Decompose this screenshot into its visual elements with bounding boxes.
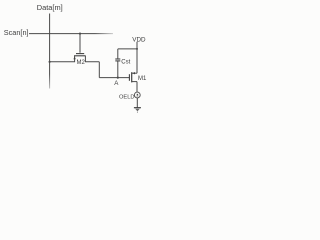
- transistor M1 source stub: [132, 81, 137, 83]
- transistor M2 drain lead: [85, 56, 99, 62]
- capacitor Cst bottom lead: [117, 61, 119, 78]
- svg-text:A: A: [114, 80, 119, 87]
- wire M1 source to OELD: [136, 82, 138, 93]
- wire M2 drain to node A: [98, 62, 100, 78]
- transistor M1 drain stub (to VDD): [132, 72, 137, 74]
- capacitor Cst top lead: [117, 49, 119, 59]
- junction dot scan/gate: [79, 33, 81, 35]
- transistor M2 channel bar: [74, 55, 86, 57]
- transistor M1 gate bar: [128, 74, 130, 81]
- capacitor Cst top plate: [115, 58, 120, 60]
- junction dot data/M2 source: [49, 61, 51, 63]
- ground bar: [134, 107, 141, 109]
- svg-text:Cst: Cst: [121, 59, 130, 65]
- transistor M1 drain arrow: [132, 72, 135, 74]
- transistor M2 gate bar: [76, 53, 84, 55]
- diode OELD circle: [134, 92, 140, 98]
- wire OELD to ground: [136, 98, 138, 108]
- ground tip mark: [137, 112, 138, 113]
- svg-text:M1: M1: [138, 76, 147, 82]
- diode OELD triangle: [136, 94, 138, 96]
- svg-text:Data[m]: Data[m]: [37, 3, 63, 12]
- wire VDD vertical: [136, 42, 138, 73]
- transistor M1 channel bar: [131, 72, 133, 82]
- junction dot node A / Cst: [117, 77, 119, 79]
- diode OELD cathode bar: [136, 95, 138, 97]
- wire Scan[n] horizontal line: [29, 33, 95, 35]
- svg-text:VDD: VDD: [132, 36, 146, 43]
- wire node A horizontal: [99, 77, 129, 79]
- svg-text:OELD: OELD: [119, 94, 135, 100]
- ground triangle: [135, 109, 140, 112]
- transistor M2 source arrow: [73, 57, 75, 60]
- junction dot VDD/Cst: [136, 48, 138, 50]
- svg-text:Scan[n]: Scan[n]: [4, 28, 29, 37]
- wire M2 gate stub: [79, 34, 81, 53]
- wire Cst to VDD rail: [118, 48, 137, 50]
- transistor M2 source lead: [50, 56, 75, 62]
- wire Data[m] vertical line: [49, 14, 51, 75]
- svg-text:M2: M2: [77, 60, 86, 66]
- capacitor Cst bottom plate: [115, 60, 120, 62]
